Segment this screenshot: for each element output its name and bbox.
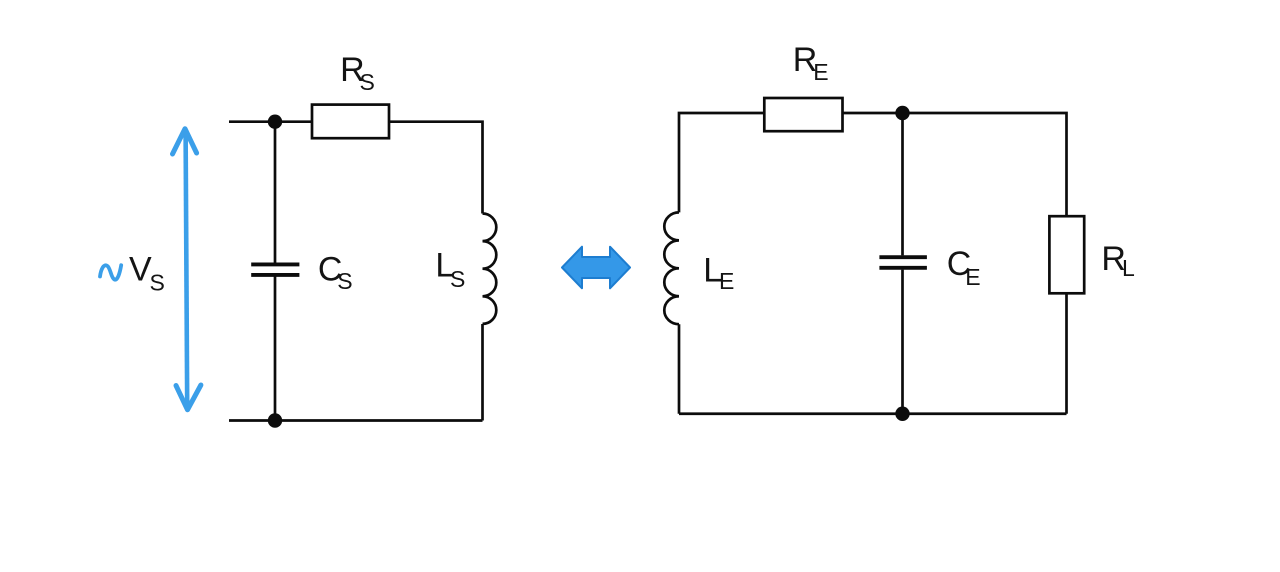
wire top-right right circuit: [843, 113, 1067, 216]
wire left-branch lower: [274, 277, 277, 421]
node bottom-left: [268, 413, 282, 427]
resistor R_L: [1049, 216, 1084, 293]
equivalence arrow: [562, 247, 630, 289]
resistor R_E: [764, 98, 842, 131]
resistor R_S: [312, 105, 389, 139]
wire right-lower: [481, 324, 484, 421]
svg-text:S: S: [360, 69, 375, 95]
wire middle-branch lower: [901, 270, 904, 414]
label C_E: [947, 245, 981, 290]
svg-text:E: E: [813, 59, 828, 85]
node top-middle: [895, 106, 909, 120]
wire top-right: [389, 122, 483, 214]
svg-text:S: S: [150, 270, 165, 296]
svg-text:E: E: [965, 264, 980, 290]
wire top-left stub: [229, 120, 312, 123]
sine symbol: [100, 265, 121, 279]
wire left-branch upper: [274, 122, 277, 263]
svg-text:E: E: [719, 268, 734, 294]
svg-text:L: L: [1122, 255, 1135, 281]
node top-left: [268, 115, 282, 129]
wire bottom right circuit: [679, 412, 1067, 415]
capacitor C_E: [879, 257, 927, 268]
source V_S arrow head bottom: [176, 385, 201, 410]
wire left-lower right circuit: [678, 324, 681, 414]
node bottom-middle: [895, 407, 909, 421]
label L_E: [703, 252, 734, 295]
source V_S arrow shaft: [186, 131, 188, 407]
wire right-lower right circuit: [1065, 293, 1068, 413]
label R_E: [793, 41, 829, 85]
wire bottom-left circuit: [229, 419, 483, 422]
label C_S: [318, 251, 353, 294]
wire middle-branch upper: [901, 113, 904, 255]
label V_S: [129, 251, 165, 296]
source V_S arrow head top: [173, 129, 197, 154]
label R_S: [340, 51, 375, 95]
label R_L: [1101, 240, 1135, 281]
svg-text:S: S: [337, 268, 352, 294]
label L_S: [435, 247, 465, 293]
capacitor C_S: [251, 264, 299, 275]
wire top-left right circuit: [679, 113, 764, 212]
inductor L_S: [483, 214, 497, 324]
svg-text:S: S: [450, 266, 465, 292]
inductor L_E: [664, 212, 679, 324]
